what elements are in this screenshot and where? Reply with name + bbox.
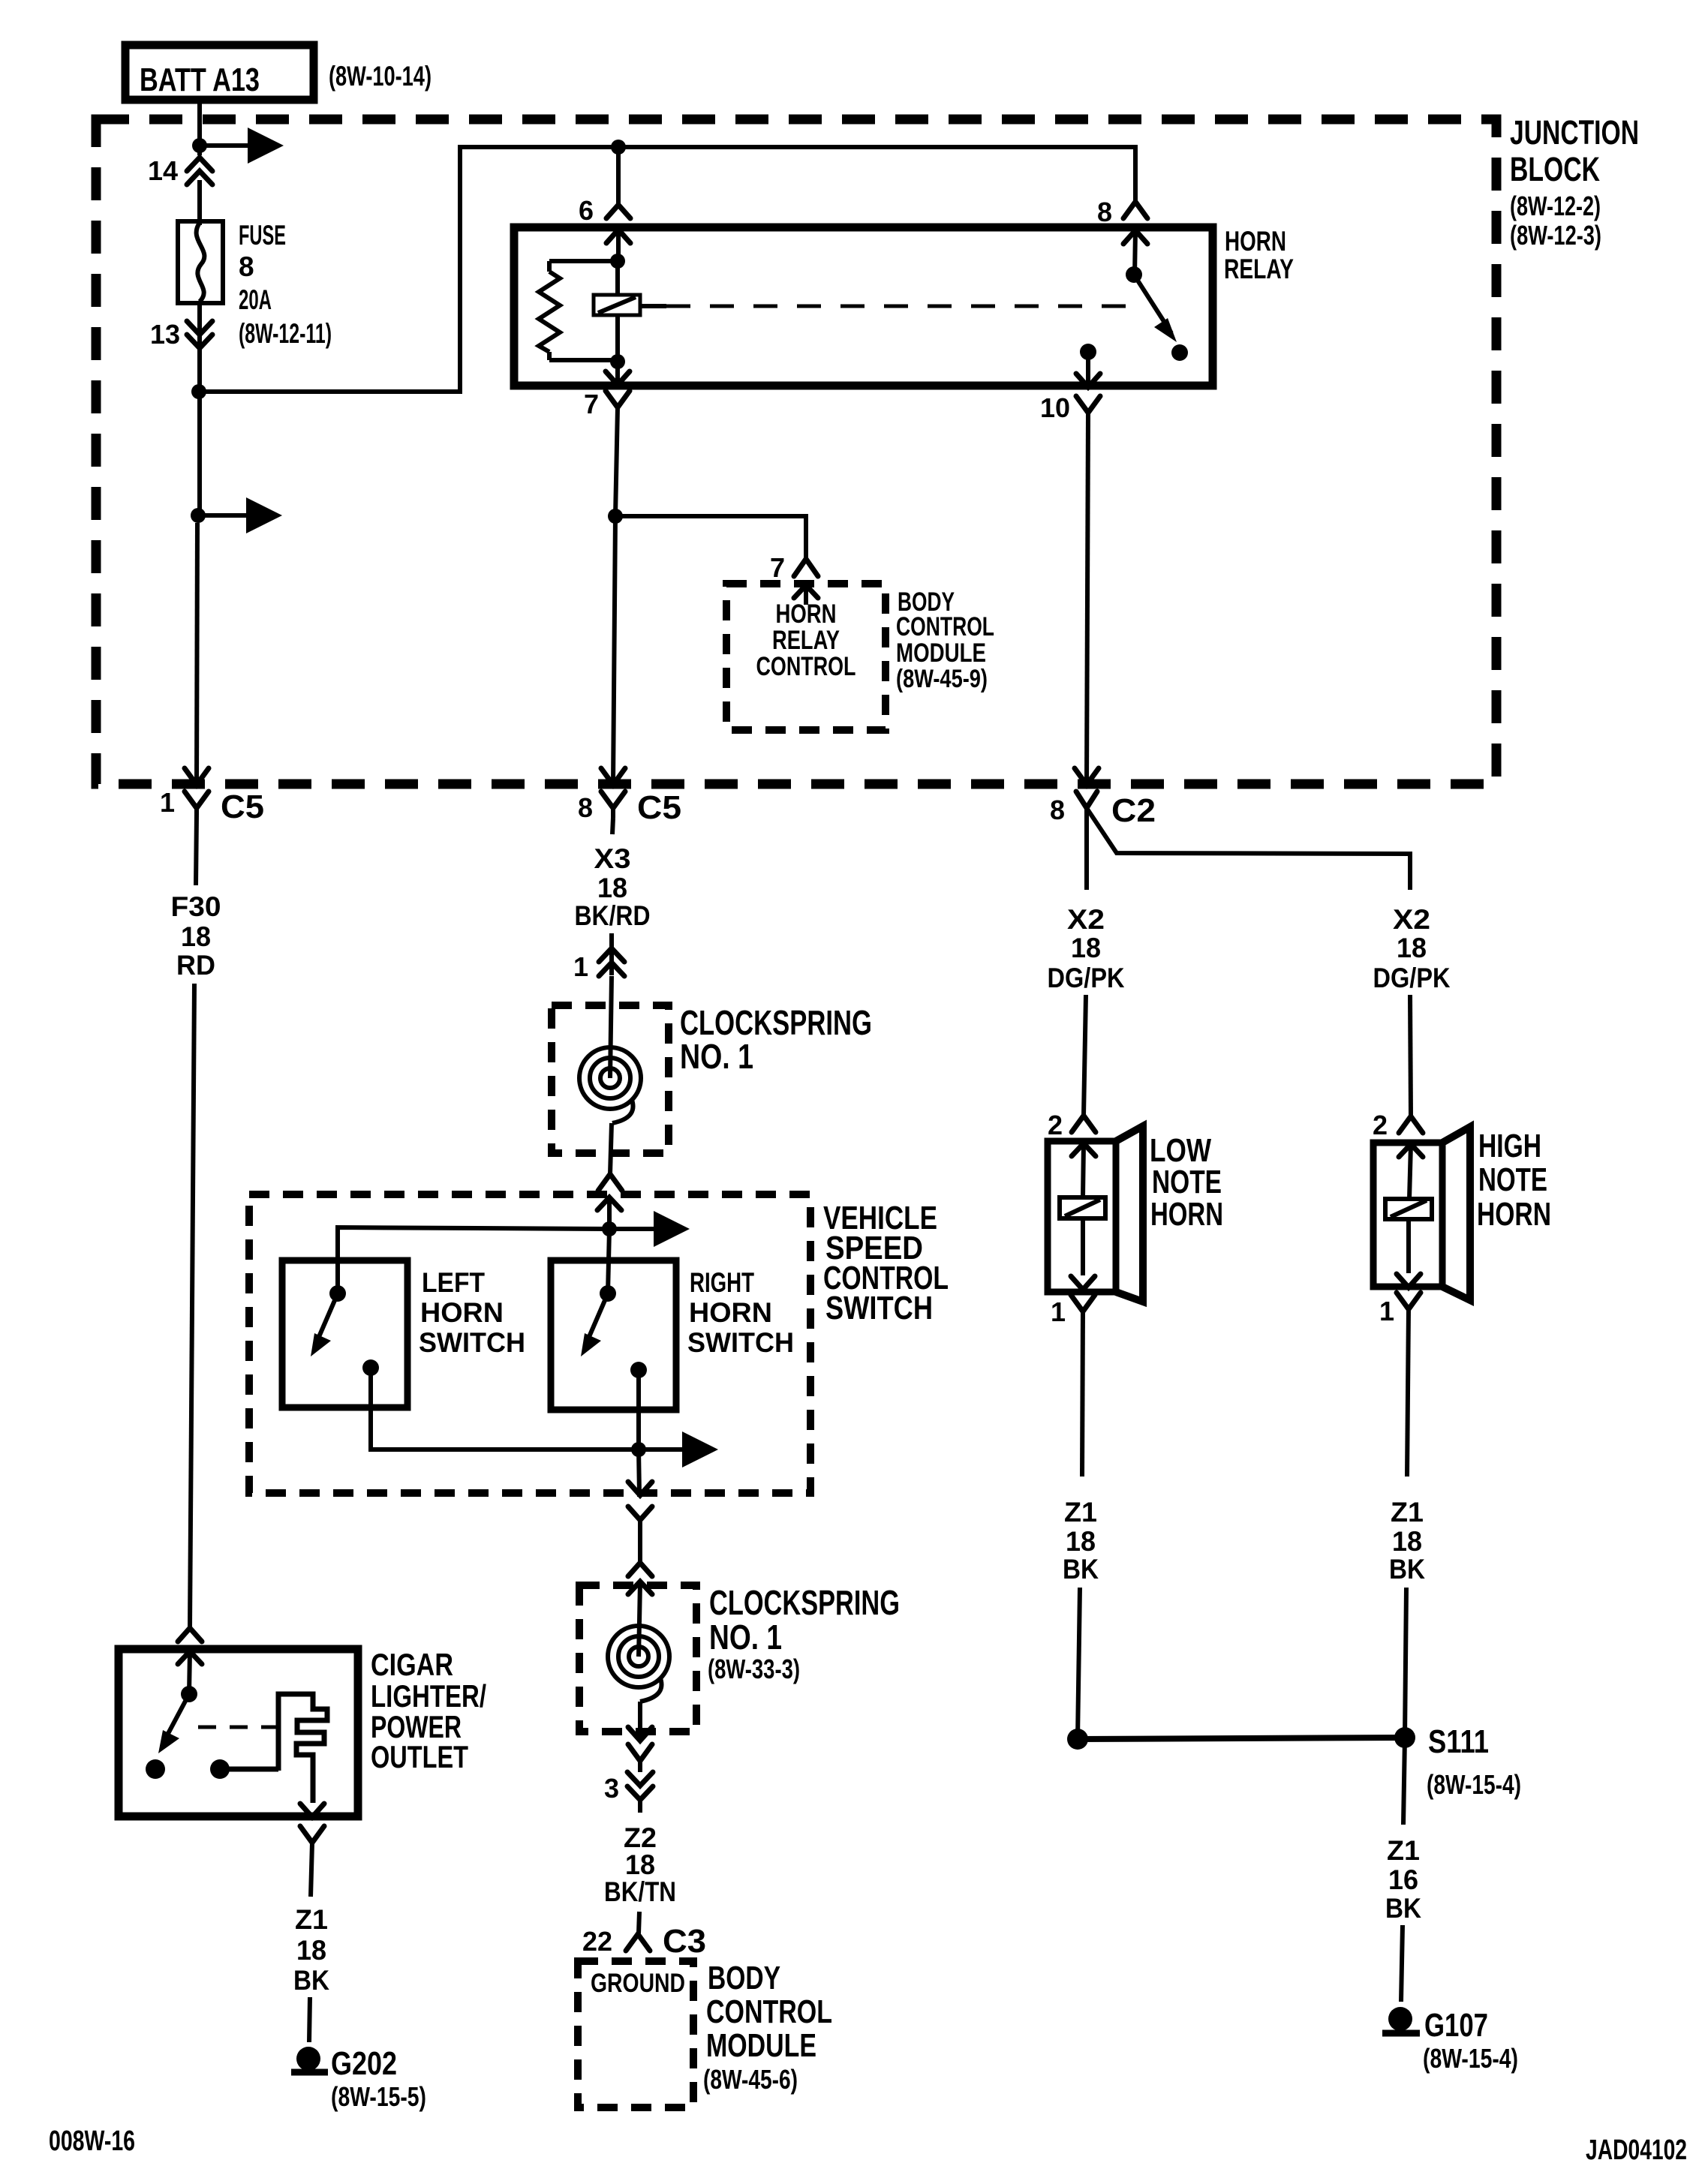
wire label Z1 18 BK (high horn) xyxy=(1389,1497,1425,1585)
svg-text:CONTROL: CONTROL xyxy=(756,652,856,681)
low note horn label xyxy=(1150,1132,1223,1233)
wire X2 lower segment (high horn) xyxy=(1410,995,1411,1116)
svg-text:HORN: HORN xyxy=(1477,1196,1551,1233)
right horn switch contacts xyxy=(581,1285,647,1378)
node: battery feed junction dot xyxy=(192,138,207,153)
wire clockspring no.1 output xyxy=(610,1123,612,1174)
svg-text:7: 7 xyxy=(584,389,599,419)
svg-text:8: 8 xyxy=(1050,795,1065,825)
left horn switch contacts xyxy=(311,1285,379,1376)
connector C3 cavity 22 xyxy=(582,1923,706,1960)
clockspring no.1 lower label xyxy=(708,1583,900,1684)
node: low horn ground dot xyxy=(1067,1729,1088,1750)
cigar lighter entry connector xyxy=(178,1628,202,1694)
svg-text:MODULE: MODULE xyxy=(896,638,986,668)
svg-text:1: 1 xyxy=(160,787,175,818)
connector pin 14 double chevron xyxy=(148,155,212,186)
connector pin 13 double chevron xyxy=(150,319,212,350)
low note horn coil xyxy=(1060,1197,1105,1275)
svg-text:3: 3 xyxy=(604,1773,619,1804)
svg-text:Z1: Z1 xyxy=(1387,1835,1420,1866)
clockspring connector pin 1 double chevron xyxy=(573,948,624,982)
node: lower battery branch dot xyxy=(191,508,206,523)
left horn switch box xyxy=(282,1260,407,1407)
clockspring no.1 dashed box xyxy=(552,1005,669,1153)
low note horn pin 1 connector xyxy=(1051,1276,1095,1477)
svg-text:1: 1 xyxy=(573,951,588,982)
wire label X3 18 BK/RD xyxy=(575,843,651,931)
svg-text:(8W-12-11): (8W-12-11) xyxy=(239,318,332,349)
vehicle speed control switch exit connector xyxy=(628,1482,652,1520)
wire F30 upper segment xyxy=(196,814,197,885)
svg-text:JAD04102: JAD04102 xyxy=(1586,2134,1687,2166)
wire from fuse node to horn relay pins 6 and 8 xyxy=(199,147,1135,392)
clockspring no.1 coil spiral xyxy=(579,1047,641,1123)
svg-text:FUSE: FUSE xyxy=(239,220,286,251)
right horn switch box xyxy=(551,1260,676,1410)
connector C2 cavity 8 at junction block boundary xyxy=(1050,768,1156,829)
node: splice S111 dot xyxy=(1394,1727,1415,1748)
svg-text:HORN: HORN xyxy=(420,1297,504,1328)
svg-text:18: 18 xyxy=(597,873,627,903)
svg-text:18: 18 xyxy=(1066,1526,1096,1557)
wire branch arrow right from lower node xyxy=(198,497,282,533)
svg-text:1: 1 xyxy=(1051,1296,1066,1327)
wire label X2 18 DG/PK (low horn) xyxy=(1048,904,1125,993)
svg-text:BK: BK xyxy=(1389,1554,1425,1585)
wire X2 lower segment (low horn) xyxy=(1084,995,1086,1116)
svg-text:C5: C5 xyxy=(221,789,264,825)
svg-text:DG/PK: DG/PK xyxy=(1373,963,1451,993)
cigar lighter label xyxy=(371,1647,486,1774)
svg-text:6: 6 xyxy=(579,195,594,226)
svg-text:C5: C5 xyxy=(637,789,681,826)
svg-text:18: 18 xyxy=(1397,933,1427,963)
wire label Z2 18 BK/TN xyxy=(604,1822,676,1907)
wire fuse output down xyxy=(197,303,202,518)
junction block label xyxy=(1510,113,1639,251)
high note horn label xyxy=(1477,1128,1551,1233)
svg-text:(8W-33-3): (8W-33-3) xyxy=(708,1654,800,1684)
svg-text:SWITCH: SWITCH xyxy=(825,1290,933,1326)
svg-text:1: 1 xyxy=(1379,1296,1394,1326)
relay actuation dashed link xyxy=(666,305,1138,308)
svg-text:JUNCTION: JUNCTION xyxy=(1510,113,1639,152)
svg-text:7: 7 xyxy=(770,552,785,583)
svg-text:10: 10 xyxy=(1040,392,1070,423)
svg-text:BODY: BODY xyxy=(708,1960,780,1996)
svg-text:BATT A13: BATT A13 xyxy=(140,62,260,98)
svg-text:13: 13 xyxy=(150,319,180,350)
high note horn coil xyxy=(1385,1199,1432,1273)
wire X2 upper segment (low horn) xyxy=(1084,808,1089,890)
svg-text:008W-16: 008W-16 xyxy=(49,2125,135,2157)
vehicle speed control switch entry connector xyxy=(597,1174,622,1229)
svg-text:OUTLET: OUTLET xyxy=(371,1739,468,1774)
node: horn switch output junction dot xyxy=(631,1442,646,1457)
wire into clockspring no.1 xyxy=(610,976,612,1078)
wire Z1 16 BK below splice xyxy=(1403,1738,1405,1825)
body control module no.2 dashed box xyxy=(578,1961,693,2107)
node: relay feed dot at pin 6 drop xyxy=(611,140,626,155)
svg-text:(8W-15-4): (8W-15-4) xyxy=(1427,1769,1521,1800)
wire label F30 18 RD xyxy=(171,891,221,981)
horn relay label xyxy=(1224,226,1294,284)
svg-text:NO. 1: NO. 1 xyxy=(709,1618,782,1657)
svg-text:(8W-10-14): (8W-10-14) xyxy=(329,61,432,92)
relay switch movable arm xyxy=(1134,275,1177,342)
svg-text:GROUND: GROUND xyxy=(591,1969,685,1998)
BCM pin 7 connector xyxy=(770,552,818,605)
wire X3 lower segment xyxy=(609,933,614,975)
svg-text:X2: X2 xyxy=(1393,904,1430,935)
ground G107 label xyxy=(1423,2007,1518,2074)
svg-text:CONTROL: CONTROL xyxy=(896,612,994,641)
relay pin 8 connector xyxy=(1097,197,1147,276)
splice S111 label xyxy=(1427,1723,1521,1800)
svg-text:F30: F30 xyxy=(171,891,221,922)
svg-text:C3: C3 xyxy=(663,1923,706,1960)
svg-text:LIGHTER/: LIGHTER/ xyxy=(371,1678,486,1714)
wire branch arrow right from switch output xyxy=(639,1431,718,1468)
svg-text:(8W-12-2): (8W-12-2) xyxy=(1510,191,1601,221)
svg-text:SWITCH: SWITCH xyxy=(419,1327,525,1358)
battery feed box BATT A13 xyxy=(125,45,314,100)
wire Z1 into splice S111 xyxy=(1405,1588,1406,1738)
svg-text:14: 14 xyxy=(148,155,178,186)
wire relay pin 10 to connector C2 xyxy=(1087,413,1088,785)
svg-text:BK/TN: BK/TN xyxy=(604,1876,676,1907)
svg-text:X3: X3 xyxy=(594,843,631,874)
relay pin 6 connector xyxy=(579,195,630,263)
node: fuse output junction dot xyxy=(191,384,206,399)
svg-text:18: 18 xyxy=(625,1849,655,1880)
cigar lighter exit connector xyxy=(300,1804,324,1897)
horn relay control label xyxy=(756,599,856,681)
in-line connector to clockspring no.1 lower xyxy=(628,1520,652,1622)
high note horn pin 2 connector xyxy=(1373,1110,1423,1199)
relay pin 7 exit connector xyxy=(584,362,630,419)
clockspring no.1 label xyxy=(680,1003,872,1076)
svg-text:NOTE: NOTE xyxy=(1152,1164,1222,1200)
high note horn body xyxy=(1373,1127,1470,1300)
connector C5 cavity 1 at junction block boundary xyxy=(160,768,264,825)
svg-text:RIGHT: RIGHT xyxy=(690,1267,754,1298)
svg-text:2: 2 xyxy=(1373,1110,1388,1140)
svg-text:18: 18 xyxy=(181,921,211,952)
fuse 8 20A (8W-12-11) xyxy=(178,220,332,349)
svg-text:BK/RD: BK/RD xyxy=(575,900,651,931)
cigar lighter switch contacts xyxy=(146,1686,230,1779)
body control module no.1 dashed box xyxy=(726,584,886,730)
wire X3 upper segment xyxy=(612,818,613,834)
svg-text:SWITCH: SWITCH xyxy=(687,1327,794,1358)
wire branch arrow right from battery node xyxy=(200,128,284,164)
svg-text:NOTE: NOTE xyxy=(1478,1161,1547,1198)
svg-text:BK: BK xyxy=(1385,1893,1421,1924)
svg-text:18: 18 xyxy=(1392,1526,1422,1557)
vehicle speed control switch label xyxy=(823,1200,949,1326)
wire branch to body control module pin 7 xyxy=(615,516,806,559)
cigar lighter heating element xyxy=(220,1694,327,1803)
svg-text:NO. 1: NO. 1 xyxy=(680,1037,753,1076)
svg-text:(8W-15-4): (8W-15-4) xyxy=(1423,2043,1518,2074)
horn relay box xyxy=(514,227,1213,386)
low note horn body xyxy=(1048,1126,1143,1302)
svg-text:BK: BK xyxy=(1063,1554,1099,1585)
wire from BATT A13 into junction block xyxy=(197,100,202,155)
wire to ground G202 xyxy=(309,1997,310,2042)
wire relay pin 7 down to C5 cavity 8 xyxy=(613,407,618,785)
wire Z2 lower segment xyxy=(639,1912,639,1933)
svg-text:8: 8 xyxy=(239,251,254,282)
wire drop to relay pin 6 xyxy=(616,147,621,205)
svg-text:Z1: Z1 xyxy=(1064,1497,1097,1528)
svg-text:DG/PK: DG/PK xyxy=(1048,963,1125,993)
vehicle speed control switch dashed box xyxy=(249,1194,810,1493)
relay switch common dot xyxy=(1126,266,1142,283)
svg-text:Z1: Z1 xyxy=(1391,1497,1424,1528)
svg-text:18: 18 xyxy=(1071,933,1101,963)
wire splice bus to S111 xyxy=(1078,1738,1405,1739)
low note horn pin 2 connector xyxy=(1048,1110,1096,1197)
svg-text:(8W-15-5): (8W-15-5) xyxy=(331,2081,426,2112)
wire feed to right horn switch xyxy=(608,1229,609,1293)
wire left horn switch output xyxy=(371,1368,639,1449)
ground G107 symbol xyxy=(1382,2007,1420,2033)
wire branch arrow right from switch feed xyxy=(609,1211,690,1247)
svg-text:HORN: HORN xyxy=(1225,226,1286,257)
svg-text:CIGAR: CIGAR xyxy=(371,1647,453,1682)
node: relay coil top dot xyxy=(610,254,625,269)
svg-text:CONTROL: CONTROL xyxy=(706,1993,832,2030)
wire Z1 to splice S111 xyxy=(1078,1588,1080,1739)
high note horn pin 1 connector xyxy=(1379,1274,1421,1477)
relay switch contact dot xyxy=(1171,344,1188,361)
relay pin 10 contact dot xyxy=(1080,344,1096,360)
relay coil xyxy=(594,261,666,362)
svg-text:HORN: HORN xyxy=(1150,1196,1223,1233)
relay suppression resistor xyxy=(539,261,618,360)
right horn switch label xyxy=(687,1267,794,1358)
ground G202 label xyxy=(331,2045,426,2112)
wire switch output down to exit connector xyxy=(639,1449,639,1495)
connector C5 cavity 8 at junction block boundary xyxy=(578,768,681,826)
svg-text:LEFT: LEFT xyxy=(422,1267,485,1298)
svg-text:C2: C2 xyxy=(1111,792,1156,829)
clockspring no.1 lower coil spiral xyxy=(608,1622,669,1702)
svg-text:2: 2 xyxy=(1048,1110,1063,1140)
node: switch feed junction dot xyxy=(602,1221,617,1236)
svg-text:G107: G107 xyxy=(1424,2007,1488,2044)
junction block dashed border xyxy=(96,119,1496,784)
steering column connector pin 3 double chevron xyxy=(604,1772,653,1813)
svg-text:BK: BK xyxy=(293,1965,329,1996)
svg-text:16: 16 xyxy=(1388,1864,1418,1895)
svg-text:(8W-45-6): (8W-45-6) xyxy=(703,2064,798,2095)
body control module label xyxy=(896,587,994,693)
cigar lighter actuation dashed link xyxy=(198,1726,278,1729)
wire from pin 14 to fuse xyxy=(197,180,202,225)
wire branch to high note horn xyxy=(1087,808,1410,890)
node: relay coil bottom dot xyxy=(610,354,625,369)
wire label Z1 16 BK xyxy=(1385,1835,1421,1924)
svg-text:HORN: HORN xyxy=(776,599,837,629)
wire label X2 18 DG/PK (high horn) xyxy=(1373,904,1451,993)
svg-text:X2: X2 xyxy=(1067,904,1105,935)
clockspring no.1 lower dashed box xyxy=(579,1585,696,1732)
wire label Z1 18 BK (low horn) xyxy=(1063,1497,1099,1585)
svg-text:22: 22 xyxy=(582,1926,612,1957)
svg-text:8: 8 xyxy=(578,792,593,823)
svg-text:20A: 20A xyxy=(239,284,272,315)
svg-text:HORN: HORN xyxy=(689,1297,772,1328)
svg-text:(8W-12-3): (8W-12-3) xyxy=(1510,220,1601,251)
wire label Z1 18 BK (cigar lighter) xyxy=(293,1904,329,1996)
svg-text:HIGH: HIGH xyxy=(1478,1128,1541,1164)
left horn switch label xyxy=(419,1267,525,1358)
wire feed to left horn switch xyxy=(338,1227,609,1293)
cigar lighter / power outlet box xyxy=(119,1649,358,1816)
svg-text:(8W-45-9): (8W-45-9) xyxy=(896,665,988,693)
svg-text:S111: S111 xyxy=(1428,1723,1489,1760)
svg-text:MODULE: MODULE xyxy=(706,2027,816,2064)
clockspring lower exit connector xyxy=(628,1702,652,1772)
relay pin 10 exit connector xyxy=(1040,352,1100,423)
svg-text:Z1: Z1 xyxy=(295,1904,328,1935)
svg-text:RD: RD xyxy=(176,950,215,981)
svg-text:RELAY: RELAY xyxy=(1224,254,1294,284)
wire F30 lower segment to cigar lighter xyxy=(190,984,194,1628)
svg-text:RELAY: RELAY xyxy=(772,626,840,655)
ground G202 symbol xyxy=(291,2047,328,2072)
wire down to connector C5 cavity 1 xyxy=(197,523,197,785)
wire to ground G107 xyxy=(1401,1925,1403,2002)
body control module no.2 label xyxy=(703,1960,832,2095)
svg-text:G202: G202 xyxy=(331,2045,397,2082)
svg-text:18: 18 xyxy=(296,1935,326,1966)
node: horn relay control branch dot xyxy=(608,509,623,524)
svg-text:Z2: Z2 xyxy=(624,1822,657,1853)
svg-text:BLOCK: BLOCK xyxy=(1510,150,1600,188)
svg-text:8: 8 xyxy=(1097,197,1112,227)
svg-text:CLOCKSPRING: CLOCKSPRING xyxy=(709,1583,900,1622)
wire right horn switch output xyxy=(636,1370,641,1449)
